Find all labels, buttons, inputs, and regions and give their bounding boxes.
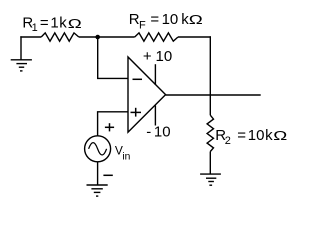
node A junction dot: [95, 35, 100, 40]
resistor RF: [135, 33, 178, 41]
resistor R1: [41, 33, 79, 41]
wire Vin bottom to ground: [97, 162, 99, 185]
ground (under Vin): [87, 185, 108, 196]
wire top rail middle segment: [79, 36, 135, 38]
wire output from op-amp: [166, 94, 261, 96]
svg-text:-10: -10: [146, 124, 170, 141]
wire junction down to inverting input: [98, 37, 129, 78]
resistor R2: [207, 115, 213, 151]
source Vin circle: [85, 136, 111, 162]
ground (left, under R1 input): [11, 36, 32, 71]
op-amp U1 triangle: [128, 57, 166, 132]
wire non-inverting input from Vin: [98, 112, 129, 136]
wire R2 bottom to ground: [209, 152, 211, 175]
source Vin minus polarity mark: [103, 174, 112, 176]
svg-text:Ω: Ω: [189, 14, 203, 27]
svg-text:+10: +10: [143, 48, 172, 65]
wire top rail left segment: [20, 36, 41, 38]
op-amp positive supply pin: [154, 64, 156, 85]
wire top rail right segment: [178, 36, 211, 38]
op-amp non-inverting input plus sign: [131, 108, 142, 117]
wire right vertical rail down to R2: [209, 36, 211, 115]
ground (under R2): [200, 174, 221, 185]
svg-text:R2=10k: R2=10k: [215, 127, 273, 147]
source Vin sine wave: [89, 143, 107, 155]
source Vin plus polarity mark: [105, 123, 114, 131]
svg-text:Ω: Ω: [273, 130, 287, 143]
svg-text:R1=1k: R1=1k: [22, 15, 67, 35]
op-amp inverting input minus sign: [133, 78, 143, 80]
svg-text:Ω: Ω: [68, 18, 82, 31]
op-amp negative supply pin: [154, 106, 156, 126]
